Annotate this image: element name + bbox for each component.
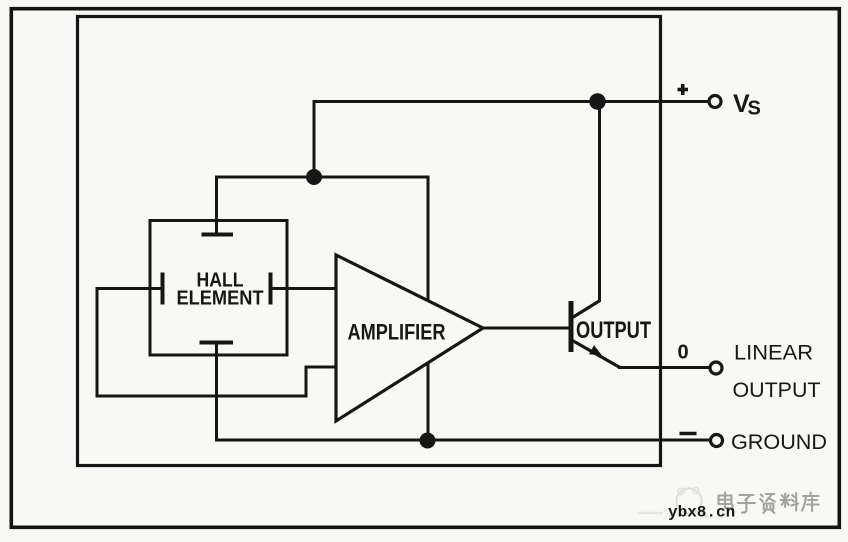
- svg-text:GROUND: GROUND: [731, 430, 827, 454]
- wire collector to supply rail: [598, 102, 601, 302]
- svg-text:LINEAR: LINEAR: [734, 341, 813, 365]
- label +: [678, 84, 689, 95]
- label minus: [680, 432, 697, 436]
- svg-text:OUTPUT: OUTPUT: [733, 378, 821, 402]
- svg-text:OUTPUT: OUTPUT: [576, 317, 651, 344]
- svg-text:AMPLIFIER: AMPLIFIER: [348, 320, 446, 345]
- node supply junction A: [306, 169, 322, 185]
- wire ground bus: [217, 343, 711, 441]
- wire VS supply rail: [314, 102, 709, 178]
- label VS: [733, 90, 761, 120]
- svg-text:ELEMENT: ELEMENT: [177, 288, 264, 310]
- terminal VS: [709, 96, 721, 108]
- terminal GROUND: [711, 435, 723, 447]
- wire amplifier output to transistor base: [483, 327, 569, 330]
- terminal LINEAR OUTPUT: [710, 362, 722, 374]
- label OUTPUT (transistor): [576, 317, 651, 344]
- svg-text:ybx8.cn: ybx8.cn: [668, 504, 735, 522]
- node collector supply junction C: [589, 93, 606, 110]
- op-amp U1 amplifier: [336, 255, 483, 421]
- wire hall right electrode to amplifier input: [271, 287, 337, 290]
- label GROUND: [731, 430, 827, 454]
- node ground junction B: [420, 433, 436, 449]
- label LINEAR OUTPUT: [733, 341, 821, 403]
- wire hall left electrode feedback loop: [97, 289, 336, 397]
- device outline: [78, 17, 661, 466]
- wire emitter to linear output terminal: [618, 366, 710, 369]
- wire hall top electrode to amplifier supply drop: [217, 177, 429, 440]
- hall element H1: [150, 221, 287, 356]
- transistor Q1: [571, 301, 620, 368]
- svg-text:0: 0: [677, 341, 688, 363]
- label 0: [677, 341, 688, 363]
- svg-text:S: S: [748, 98, 761, 120]
